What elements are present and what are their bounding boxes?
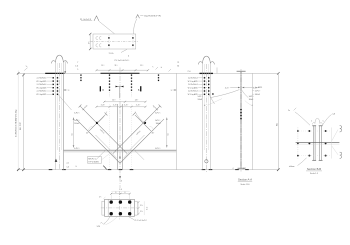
svg-text:5/16: 5/16 [97, 226, 100, 228]
svg-text:2'-0: 2'-0 [188, 71, 191, 73]
base plate anchor bolts [110, 200, 132, 215]
dim slanted ticks bottom ends [17, 168, 280, 171]
dim tick group bottom [49, 169, 249, 171]
svg-text:7: 7 [77, 62, 78, 64]
left column flange lines [54, 62, 56, 169]
mid dim row 1 [104, 101, 145, 103]
right overall dim line 841 [277, 73, 279, 169]
svg-text:51: 51 [167, 133, 169, 135]
svg-text:51: 51 [72, 133, 74, 135]
svg-text:6-PL¾: 6-PL¾ [155, 147, 161, 150]
right column bolt labels [188, 78, 198, 97]
base plate bottom-right leader [128, 217, 134, 220]
beam flange dark segment center [101, 72, 140, 74]
labels right of extension [252, 87, 254, 94]
below-line outward stub left [96, 150, 106, 160]
centerline anchor tick [119, 176, 120, 177]
svg-text:2-L76x76x6.4: 2-L76x76x6.4 [37, 91, 47, 93]
svg-text:Section B-B: Section B-B [307, 167, 321, 171]
base plate extension ticks [110, 195, 112, 200]
center view right extension line [175, 73, 177, 169]
base plate outline [105, 199, 135, 216]
svg-text:3: 3 [68, 90, 69, 92]
base plate column flange lines [107, 199, 109, 216]
section B-B mini break symbol [312, 118, 322, 124]
svg-text:160x8: 160x8 [156, 123, 161, 125]
base plate bottom-left leaders [104, 217, 110, 224]
hanger arrow above beam at left extension [64, 62, 66, 73]
top plate detail: bolts [108, 37, 133, 46]
brace left edge B [76, 119, 120, 163]
work point T marker under beam [116, 86, 124, 88]
svg-text:2-L76x76x6.4: 2-L76x76x6.4 [188, 91, 198, 93]
center column centerline [119, 68, 121, 189]
brace left edge A [80, 106, 127, 154]
far left dimension line 2 [22, 73, 24, 169]
base plate center dashed axis vertical [119, 191, 121, 221]
svg-text:841 TYP: 841 TYP [20, 122, 22, 130]
svg-text:3: 3 [171, 90, 172, 92]
svg-text:5: 5 [77, 69, 78, 71]
base plate right lug [134, 201, 137, 215]
cap plate left column (dark) [45, 72, 64, 74]
section A-A member bottom tick [238, 167, 245, 169]
base plate left lug [102, 201, 105, 215]
left column diagonal leader [58, 95, 71, 110]
right column grid bubble [205, 160, 208, 163]
svg-text:2-L76x76x6.4: 2-L76x76x6.4 [37, 84, 47, 86]
section A-A centerline [240, 69, 242, 172]
short extension tick left of section A-A [216, 68, 218, 74]
svg-text:6-PL¾: 6-PL¾ [74, 111, 80, 114]
svg-text:160x8: 160x8 [74, 123, 79, 125]
left column break symbol (crown) [51, 55, 67, 63]
below-line outward stub right [135, 150, 145, 160]
section B-B left bolt line [297, 128, 299, 159]
svg-text:6: 6 [125, 192, 126, 194]
section A-A bolts [240, 109, 242, 120]
svg-text:1'-0: 1'-0 [119, 189, 122, 191]
top plate detail: bolt gauge dotted lines [108, 35, 110, 48]
section A-A member top tick [237, 70, 246, 72]
section cut marker B right [140, 86, 141, 91]
gusset work line (double) [64, 149, 177, 151]
svg-text:2-1: 2-1 [67, 163, 70, 165]
svg-text:Scale 1:5: Scale 1:5 [310, 173, 318, 175]
beam bolt row far right [158, 74, 160, 82]
bracket dim right 51 [166, 118, 168, 148]
section B-B callout t=8 top-right [322, 114, 331, 125]
svg-text:75: 75 [177, 62, 179, 64]
beam bolt row right-center [131, 74, 133, 98]
section B-B plate pair right [319, 126, 321, 161]
wire main beam top line [17, 72, 278, 74]
section B-B weld squiggle upper [340, 126, 342, 132]
brace end cut right [159, 105, 162, 108]
right column bolt group [204, 77, 214, 95]
svg-text:102: 102 [243, 168, 246, 170]
svg-text:1'-2: 1'-2 [146, 207, 148, 210]
section B-B member horizontal (double) [296, 142, 340, 144]
section B-B bolts on plates [308, 130, 326, 157]
beam bolt row far left [80, 74, 82, 82]
top plate detail: left dim [89, 34, 91, 50]
section B-B gauge lines [299, 130, 331, 132]
right column inner angle lines [204, 64, 206, 150]
work point bolt left [96, 122, 98, 124]
svg-text:2-L76x76x6.4: 2-L76x76x6.4 [188, 78, 198, 80]
svg-text:⅞φ A325: ⅞φ A325 [255, 86, 262, 89]
section B-B plate caps [312, 126, 322, 161]
top plate callout right with weld flag [134, 19, 137, 34]
leader curve to bottom dim line [103, 166, 106, 170]
stacked dims left of beam [75, 62, 78, 71]
section A-A member web lines [239, 71, 241, 168]
dim ticks top left [17, 72, 25, 76]
right extension line of section A-A view [251, 73, 253, 169]
left column centerline [58, 63, 60, 170]
top plate detail: outline [93, 34, 136, 49]
gusset edge right [130, 135, 145, 150]
gauge extension dotted right [131, 105, 133, 170]
svg-text:2-L89x89x9.5 (SLBB) W 2-22φ: 2-L89x89x9.5 (SLBB) W 2-22φ [16, 109, 18, 137]
left column inner angle lines [56, 63, 58, 150]
center column flange lines [117, 104, 119, 170]
leader curve from left bolt [97, 112, 107, 123]
svg-text:2-L76x76x6.4: 2-L76x76x6.4 [37, 78, 47, 80]
base plate top dim line [111, 193, 130, 195]
svg-text:B: B [119, 156, 121, 160]
top dim line of center view [97, 69, 149, 71]
section B-B plate pair left [312, 126, 314, 161]
small dim arrows at extensions [64, 89, 68, 91]
splice stub right [135, 115, 151, 131]
svg-text:160x8: 160x8 [198, 99, 203, 101]
svg-text:4: 4 [233, 168, 234, 170]
MIN PL note box [88, 157, 102, 164]
svg-text:6: 6 [115, 192, 116, 194]
svg-text:45°: 45° [86, 132, 89, 134]
svg-text:16φ HOLES (TYP): 16φ HOLES (TYP) [144, 16, 161, 18]
splice stub left [89, 115, 105, 131]
base plate center dashed axis horizontal [101, 207, 138, 209]
top plate detail: centerline [91, 41, 139, 43]
base plate right dim line 1 [138, 201, 140, 215]
cap plate right column (dark) [200, 72, 214, 74]
svg-text:Scale 1:10: Scale 1:10 [241, 184, 250, 186]
right column bolt leader lines [198, 78, 203, 95]
svg-text:45°: 45° [152, 132, 155, 134]
top plate detail: hook slots [96, 36, 101, 46]
svg-text:t=8mm: t=8mm [289, 165, 295, 168]
svg-text:1'-5⅜: 1'-5⅜ [109, 53, 114, 55]
svg-text:TYP 4 SIDES: TYP 4 SIDES [88, 162, 99, 164]
svg-text:6-PL¾: 6-PL¾ [155, 111, 161, 114]
svg-text:t=8: t=8 [332, 113, 335, 116]
svg-text:2-L76x76x6.4: 2-L76x76x6.4 [188, 84, 198, 86]
brace right edge C [113, 106, 160, 154]
brace end cut left [79, 105, 82, 108]
svg-text:Section A-A: Section A-A [238, 178, 252, 182]
left column bolt labels [36, 78, 46, 97]
work point bolt right [144, 122, 146, 124]
svg-text:2x: 2x [288, 110, 290, 112]
center view left extension line [63, 73, 65, 169]
svg-text:6-PL¾: 6-PL¾ [74, 147, 80, 150]
section cut marker B left [100, 86, 101, 91]
far left dimension line [17, 71, 19, 170]
angle arc right [150, 126, 154, 130]
right column centerline [205, 64, 207, 173]
mid dim row 2 [97, 106, 146, 108]
svg-text:MIN PL ⅜: MIN PL ⅜ [88, 159, 96, 161]
left column bolt group [53, 77, 59, 95]
brace right edge D [120, 119, 164, 163]
svg-text:1-6: 1-6 [67, 167, 70, 169]
svg-text:160x8: 160x8 [255, 94, 260, 96]
left column level arrow [55, 159, 58, 162]
svg-text:65: 65 [177, 66, 179, 68]
wire bottom dimension line [17, 169, 278, 171]
right column break symbol (crown) [198, 56, 214, 64]
base plate right dim line 2 [143, 201, 145, 215]
bracket dim left 51 [73, 118, 75, 148]
gauge extension dotted left [109, 105, 111, 170]
section B-B right edge line [331, 128, 333, 159]
gusset edge left [96, 135, 111, 150]
right column flange lines [202, 63, 204, 169]
svg-text:1'-6: 1'-6 [75, 65, 78, 67]
leader curve from right bolt [135, 112, 145, 123]
angle arc left [89, 126, 93, 130]
right column diagonal leader [209, 95, 215, 104]
section B-B weld squiggle lower [340, 152, 342, 158]
beam bolt row left-center [109, 74, 111, 98]
left column bolt leader lines [47, 78, 52, 95]
